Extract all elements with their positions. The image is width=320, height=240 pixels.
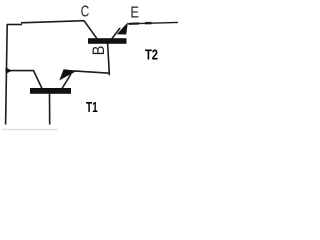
svg-text:T1: T1 <box>86 100 98 116</box>
svg-text:C: C <box>81 3 90 20</box>
svg-text:T2: T2 <box>145 47 158 63</box>
svg-text:E: E <box>130 4 139 21</box>
svg-text:B: B <box>90 46 108 56</box>
